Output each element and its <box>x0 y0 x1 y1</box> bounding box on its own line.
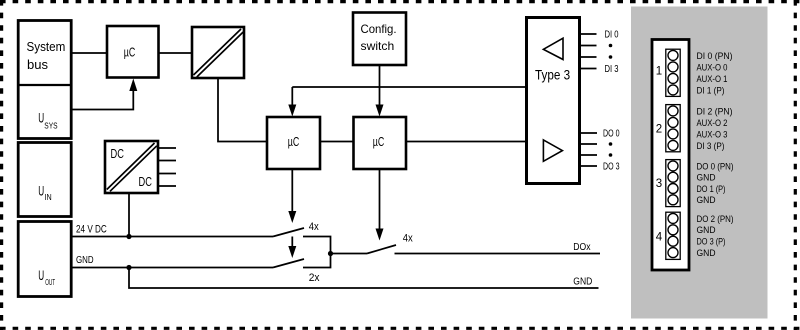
svg-text:4: 4 <box>656 232 663 244</box>
svg-text:µC: µC <box>124 45 136 60</box>
op µC U1 box <box>107 26 159 78</box>
svg-text:4x: 4x <box>309 221 319 233</box>
svg-text:DI 0: DI 0 <box>605 29 619 40</box>
terminal block U_OUT box <box>18 222 71 297</box>
µC U2 box <box>267 117 320 169</box>
svg-text:DO 3 (P): DO 3 (P) <box>697 237 726 247</box>
DC/DC output stub 3 <box>158 173 176 175</box>
svg-text:GND: GND <box>76 255 94 266</box>
ellipsis dot DO a <box>609 142 613 146</box>
connector group 3 frame <box>666 160 680 207</box>
DC/DC output stub 1 <box>158 147 176 149</box>
pin circle 4.4 <box>668 248 678 258</box>
svg-text:bus: bus <box>27 58 48 72</box>
svg-text:GND: GND <box>697 173 716 183</box>
arrowhead into µC U2 top <box>288 105 296 117</box>
connector X1 outer box <box>652 40 689 271</box>
wire DC/DC down to 24V rail <box>128 193 130 237</box>
pin circle 4.3 <box>668 236 678 246</box>
svg-text:Type 3: Type 3 <box>535 68 570 83</box>
svg-text:AUX-O 3: AUX-O 3 <box>697 129 728 139</box>
svg-text:switch: switch <box>361 39 395 53</box>
node junction DC/DC on 24V rail <box>126 234 131 239</box>
wire µC U3 to Type 3 <box>406 141 527 143</box>
DC/DC diagonal 2 <box>110 146 157 192</box>
pin circle 3.1 <box>668 161 678 171</box>
pin circle 2.1 <box>668 106 678 116</box>
terminal block: System bus / U_SYS box <box>18 21 71 139</box>
svg-text:DC: DC <box>111 146 124 161</box>
svg-text:DO 2 (PN): DO 2 (PN) <box>697 214 734 224</box>
svg-text:SYS: SYS <box>44 122 57 131</box>
isolation diagonal 1 <box>194 29 242 75</box>
svg-text:U: U <box>38 182 44 198</box>
wire µC U2 to µC U3 <box>320 141 354 143</box>
svg-text:DO 1 (P): DO 1 (P) <box>697 184 726 194</box>
connector group 1 frame <box>666 49 680 96</box>
pin circle 2.3 <box>668 129 678 139</box>
node junction GND rail <box>126 265 131 270</box>
switch S2 blade <box>273 259 304 268</box>
svg-text:OUT: OUT <box>45 278 55 287</box>
DO stub 3 <box>580 165 597 167</box>
wire Type 3 to µC feedback line <box>292 86 526 88</box>
svg-text:DI 3 (P): DI 3 (P) <box>697 141 725 151</box>
switch S1 blade <box>273 228 304 237</box>
pin circle 4.1 <box>668 213 678 223</box>
svg-text:µC: µC <box>288 134 300 149</box>
switch S1 output wire <box>303 237 331 268</box>
arrow through to switch S2 <box>291 237 293 250</box>
svg-text:2: 2 <box>656 124 662 136</box>
arrowhead into µC U3 top <box>376 105 384 117</box>
pin circle 3.2 <box>668 172 678 182</box>
ellipsis dot DO b <box>609 153 613 157</box>
connector area gray panel <box>631 7 768 319</box>
DI stub 0 <box>580 33 597 35</box>
svg-text:U: U <box>38 110 44 126</box>
ellipsis dot DI b <box>609 55 613 59</box>
DI stub 2 <box>580 56 597 58</box>
DOx output wire <box>395 253 601 255</box>
svg-text:AUX-O 1: AUX-O 1 <box>697 74 728 84</box>
dashed border right <box>794 0 797 330</box>
galvanic isolation block <box>192 27 244 78</box>
wire down into µC U2 top <box>291 87 293 107</box>
connector group 2 frame <box>666 105 680 152</box>
svg-text:24 V DC: 24 V DC <box>76 224 107 236</box>
DC/DC diagonal 1 <box>107 143 155 190</box>
svg-text:DI 2 (PN): DI 2 (PN) <box>697 106 733 116</box>
arrow µC U3 to switch S3 <box>379 169 381 230</box>
pin circle 1.3 <box>668 73 678 83</box>
wire Config. switch down to µC U3 <box>379 65 381 107</box>
pin circle 3.4 <box>668 195 678 205</box>
Config. switch box <box>353 13 406 66</box>
wire junction to switch S3 <box>331 253 368 255</box>
pin circle 4.2 <box>668 225 678 235</box>
arrow µC U2 to switch S1 <box>291 169 293 214</box>
wire System bus to µC U1 <box>71 52 107 54</box>
pin circle 1.1 <box>668 50 678 60</box>
svg-text:DC: DC <box>139 174 152 189</box>
label U_SYS <box>38 110 57 131</box>
arrowhead at switch S3 <box>376 229 384 241</box>
svg-text:DO 0 (PN): DO 0 (PN) <box>697 161 734 171</box>
wire isolation down to µC U2 <box>218 78 267 142</box>
terminal block U_IN box <box>18 143 71 217</box>
µC U3 box <box>354 117 407 169</box>
label System bus <box>27 40 66 72</box>
DO stub 2 <box>580 154 597 156</box>
Type 3 driver box <box>527 18 580 184</box>
arrowhead at switch S1 <box>288 211 296 223</box>
DC/DC converter box <box>105 141 158 193</box>
svg-text:DO 0: DO 0 <box>603 128 620 139</box>
input triangle (DI) <box>543 38 563 59</box>
svg-text:2x: 2x <box>309 272 320 284</box>
ellipsis dot DI a <box>609 44 613 48</box>
svg-text:AUX-O 2: AUX-O 2 <box>697 118 728 128</box>
DC/DC output stub 4 <box>158 185 176 187</box>
svg-text:DOx: DOx <box>573 242 590 253</box>
svg-text:GND: GND <box>573 277 592 288</box>
wire U_SYS to µC U1 (L-shape) <box>71 90 133 110</box>
output triangle (DO) <box>543 140 562 161</box>
svg-text:µC: µC <box>373 134 385 149</box>
GND output wire <box>129 268 599 289</box>
label Config. switch <box>361 22 397 53</box>
divider System bus / U_SYS <box>18 84 71 86</box>
svg-text:DI 0 (PN): DI 0 (PN) <box>697 51 733 61</box>
connector group 4 frame <box>666 212 680 259</box>
DO stub 0 <box>580 132 597 134</box>
svg-text:4x: 4x <box>403 232 413 244</box>
dashed border left <box>0 0 3 330</box>
DI stub 3 <box>580 68 597 70</box>
svg-text:System: System <box>27 40 66 54</box>
svg-text:3: 3 <box>656 178 662 190</box>
DC/DC output stub 2 <box>158 160 176 162</box>
dashed border top <box>0 0 800 3</box>
svg-text:GND: GND <box>697 248 716 258</box>
arrowhead into µC U1 bottom <box>129 79 137 92</box>
24 V DC rail <box>71 236 273 238</box>
label U_IN <box>38 182 52 202</box>
GND rail <box>71 267 273 269</box>
pin circle 3.3 <box>668 184 678 194</box>
svg-text:1: 1 <box>656 66 662 78</box>
svg-text:DI 3: DI 3 <box>605 64 619 75</box>
pin circle 1.2 <box>668 62 678 72</box>
arrowhead at switch S2 <box>288 246 296 258</box>
pin circle 1.4 <box>668 85 678 95</box>
svg-text:U: U <box>38 267 44 283</box>
pin circle 2.4 <box>668 140 678 150</box>
isolation diagonal 2 <box>197 32 243 77</box>
dashed border bottom <box>0 327 800 330</box>
svg-text:Config.: Config. <box>361 22 397 36</box>
node junction switch outputs <box>328 251 333 256</box>
switch S3 blade <box>367 245 396 254</box>
svg-text:GND: GND <box>697 225 716 235</box>
DI stub 1 <box>580 45 597 47</box>
svg-text:DO 3: DO 3 <box>603 161 620 172</box>
svg-text:GND: GND <box>697 195 716 205</box>
pin circle 2.2 <box>668 117 678 127</box>
svg-text:IN: IN <box>45 193 52 202</box>
DO stub 1 <box>580 143 597 145</box>
label U_OUT <box>38 267 55 287</box>
svg-text:AUX-O 0: AUX-O 0 <box>697 62 728 72</box>
svg-text:DI 1 (P): DI 1 (P) <box>697 85 725 95</box>
wire µC U1 to isolation <box>159 52 193 54</box>
